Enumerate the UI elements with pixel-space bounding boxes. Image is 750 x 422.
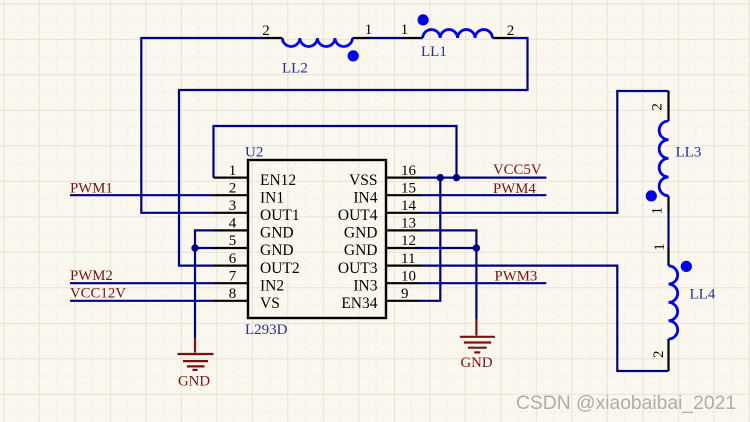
- wire LL2 pin1 to LL1 pin1: [371, 37, 404, 39]
- svg-text:1: 1: [650, 207, 666, 215]
- U2 pins left stubs: [214, 178, 249, 301]
- LL1 polarity dot: [418, 14, 429, 25]
- svg-text:2: 2: [262, 23, 270, 39]
- svg-text:14: 14: [401, 198, 417, 214]
- svg-text:EN34: EN34: [341, 295, 377, 312]
- svg-text:4: 4: [229, 216, 237, 232]
- svg-text:5: 5: [229, 233, 237, 249]
- svg-text:PWM2: PWM2: [70, 268, 113, 284]
- junction dot pin4/pin5 GND: [191, 244, 198, 251]
- svg-text:8: 8: [229, 286, 237, 302]
- svg-text:15: 15: [401, 180, 416, 196]
- svg-text:IN2: IN2: [260, 277, 284, 294]
- ground GND1 symbol: [178, 338, 214, 370]
- wire IN4 to PWM4: [421, 194, 546, 196]
- svg-text:IN4: IN4: [353, 189, 377, 206]
- svg-text:OUT1: OUT1: [260, 207, 300, 224]
- wire EN12 loop to VSS: [214, 126, 457, 178]
- inductor LL2 coil: [282, 38, 352, 46]
- svg-text:IN1: IN1: [260, 189, 284, 206]
- svg-text:VCC5V: VCC5V: [493, 162, 542, 178]
- wire VSS to VCC5V: [421, 177, 546, 179]
- svg-text:GND: GND: [178, 373, 210, 389]
- svg-text:OUT2: OUT2: [260, 260, 300, 277]
- svg-text:GND: GND: [344, 242, 378, 259]
- svg-text:1: 1: [229, 163, 237, 179]
- wire GND1 net: pin4 and pin5 to ground: [195, 230, 214, 338]
- pin names right: [338, 172, 378, 312]
- svg-text:GND: GND: [461, 355, 493, 371]
- inductor LL4 coil: [669, 266, 678, 339]
- svg-text:PWM3: PWM3: [495, 269, 538, 285]
- wire EN34 up to VSS: [421, 178, 440, 301]
- svg-text:3: 3: [229, 198, 237, 214]
- svg-text:6: 6: [229, 251, 237, 267]
- LL4 polarity dot: [681, 261, 692, 272]
- svg-text:9: 9: [401, 286, 409, 302]
- LL3 polarity dot: [646, 190, 657, 201]
- svg-text:VS: VS: [260, 295, 280, 312]
- svg-text:1: 1: [401, 22, 409, 38]
- LL2 polarity dot: [348, 50, 359, 61]
- svg-text:L293D: L293D: [245, 322, 288, 338]
- svg-text:PWM1: PWM1: [70, 181, 113, 197]
- wire IN3 to PWM3: [421, 282, 546, 284]
- svg-text:2: 2: [651, 350, 667, 358]
- svg-text:1: 1: [652, 243, 668, 251]
- svg-text:IN3: IN3: [353, 277, 377, 294]
- pin numbers right 16-9: [401, 163, 417, 302]
- svg-text:10: 10: [401, 268, 416, 284]
- svg-text:LL3: LL3: [676, 144, 702, 160]
- wire LL3 pin1 to LL4 pin1: [667, 213, 669, 247]
- svg-text:PWM4: PWM4: [493, 181, 536, 197]
- wire PWM2 to IN2: [70, 282, 214, 284]
- wire LL1 pin2 to OUT2: right corner, down, long left, down to pin6: [179, 38, 528, 266]
- svg-text:12: 12: [401, 233, 416, 249]
- svg-text:LL1: LL1: [421, 44, 447, 60]
- junction dot EN34/VSS: [437, 174, 444, 181]
- svg-text:13: 13: [401, 216, 416, 232]
- wire VCC12V to VS: [70, 300, 214, 302]
- wire OUT3 to LL4 pin2: [421, 266, 669, 371]
- svg-text:EN12: EN12: [260, 172, 296, 189]
- wire GND2 net: pin13 and pin12 to ground: [421, 230, 476, 319]
- wire LL2 pin2 to net: top-left corner down to OUT1: [141, 38, 264, 213]
- svg-text:OUT3: OUT3: [338, 260, 378, 277]
- svg-text:GND: GND: [260, 242, 294, 259]
- pin numbers left 1-8: [229, 163, 237, 302]
- junction dot pin12/pin13 GND: [473, 244, 480, 251]
- inductor LL4 pins: [667, 248, 669, 371]
- ground GND2 symbol: [460, 320, 495, 353]
- svg-text:2: 2: [507, 23, 515, 39]
- inductor LL2 pins: [264, 37, 371, 39]
- pin names left: [260, 172, 300, 312]
- svg-text:VSS: VSS: [349, 172, 377, 189]
- svg-text:1: 1: [365, 22, 373, 38]
- svg-text:LL4: LL4: [690, 286, 716, 302]
- svg-text:GND: GND: [344, 225, 378, 242]
- op-amp U1 body: IC U2 rectangle: [248, 160, 386, 318]
- svg-text:VCC12V: VCC12V: [70, 285, 126, 301]
- inductor LL1 coil: [423, 30, 493, 38]
- inductor LL3 coil: [659, 121, 668, 196]
- svg-text:U2: U2: [245, 145, 263, 161]
- svg-text:2: 2: [650, 103, 666, 111]
- svg-text:2: 2: [229, 180, 237, 196]
- inductor LL1 pins: [404, 37, 511, 39]
- svg-text:11: 11: [401, 251, 415, 267]
- svg-text:GND: GND: [260, 225, 294, 242]
- svg-text:7: 7: [229, 268, 237, 284]
- svg-text:OUT4: OUT4: [338, 207, 378, 224]
- junction dot EN12 loop/VSS: [453, 174, 460, 181]
- svg-text:LL2: LL2: [282, 61, 308, 77]
- svg-text:16: 16: [401, 163, 417, 179]
- svg-text:CSDN @xiaobaibai_2021: CSDN @xiaobaibai_2021: [516, 393, 736, 414]
- wire OUT4 to LL3 pin2: [421, 91, 669, 213]
- wire PWM1 to IN1: [70, 194, 214, 196]
- inductor LL3 pins: [667, 91, 669, 213]
- U2 pins right stubs: [386, 178, 421, 301]
